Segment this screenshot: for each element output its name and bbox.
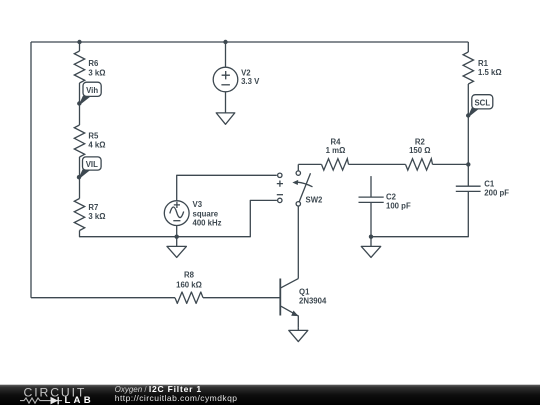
- V3 sine wave: [170, 207, 184, 218]
- resistor R5: [74, 125, 84, 157]
- logo diode: [45, 400, 62, 402]
- svg-text:SW2: SW2: [306, 196, 324, 205]
- svg-text:4 kΩ: 4 kΩ: [88, 141, 105, 150]
- svg-text:R1: R1: [478, 59, 489, 68]
- svg-text:400 kHz: 400 kHz: [193, 219, 222, 228]
- wire R6 to R5: [79, 83, 81, 125]
- flag VIL: [79, 157, 102, 179]
- V2 plus mark: [222, 71, 230, 79]
- flag Vih: [79, 82, 101, 105]
- ground for Q1: [289, 327, 308, 341]
- resistor R2: [406, 159, 433, 170]
- resistor R8: [175, 292, 203, 303]
- port terminal minus: [278, 198, 282, 202]
- resistor R4: [322, 159, 349, 170]
- wire R5 to R7: [79, 157, 81, 199]
- capacitor C1: [456, 186, 481, 191]
- ground for C2: [361, 237, 380, 258]
- transistor Q1 emitter arrow: [291, 311, 298, 317]
- node V3 bottom junction: [175, 235, 179, 239]
- port minus mark: [277, 194, 283, 196]
- wire R4 to R2: [349, 163, 406, 165]
- switch SW2 bottom terminal: [296, 202, 300, 206]
- footer bar: [0, 385, 540, 405]
- wire R7 to bottom: [80, 200, 277, 236]
- ground for V3: [167, 237, 186, 258]
- node Vih: [77, 101, 81, 105]
- flag SCL: [468, 95, 493, 117]
- svg-text:R6: R6: [88, 59, 99, 68]
- svg-text:1.5 kΩ: 1.5 kΩ: [478, 68, 502, 77]
- node C2 ground junction: [369, 235, 373, 239]
- V3 minus mark: [173, 220, 180, 222]
- switch SW2 blade: [299, 173, 310, 202]
- resistor R6: [74, 51, 84, 83]
- svg-text:200 pF: 200 pF: [484, 189, 509, 198]
- svg-text:C1: C1: [484, 180, 495, 189]
- wire R8 to Q1 base: [203, 297, 280, 299]
- svg-text:LAB: LAB: [65, 395, 94, 405]
- wire C2 bottom: [370, 202, 372, 236]
- svg-text:SCL: SCL: [474, 99, 490, 108]
- resistor R1: [463, 52, 473, 84]
- port plus mark: [277, 181, 283, 187]
- wire switch to Q1 collector: [297, 206, 299, 279]
- wire V2 bottom lead: [225, 92, 227, 113]
- svg-text:160 kΩ: 160 kΩ: [176, 280, 202, 289]
- node top rail V2: [223, 40, 227, 44]
- wire top rail: [31, 41, 468, 43]
- wire chain top lead: [79, 42, 81, 51]
- svg-text:http://circuitlab.com/cymdkqp: http://circuitlab.com/cymdkqp: [115, 393, 238, 403]
- logo resistor squiggle: [20, 398, 45, 403]
- transistor Q1 collector diagonal: [281, 279, 298, 288]
- V2 minus mark: [221, 84, 230, 86]
- wire switch top to R4: [298, 163, 321, 165]
- wire R1 to junction: [467, 84, 469, 164]
- svg-text:C2: C2: [386, 193, 397, 202]
- svg-text:1 mΩ: 1 mΩ: [326, 146, 346, 155]
- wire C2 top stub: [370, 176, 372, 197]
- svg-text:3.3 V: 3.3 V: [241, 77, 260, 86]
- node VIL: [77, 175, 81, 179]
- ground for V2: [216, 113, 235, 124]
- node R2-C1 junction: [466, 162, 470, 166]
- svg-text:VIL: VIL: [86, 160, 98, 169]
- node top rail chain: [77, 40, 81, 44]
- port terminal plus: [278, 173, 282, 177]
- capacitor C2: [359, 197, 384, 202]
- svg-text:3 kΩ: 3 kΩ: [88, 212, 105, 221]
- switch SW2 arc arrow: [298, 182, 313, 187]
- svg-text:square: square: [193, 209, 219, 218]
- svg-text:R8: R8: [184, 271, 195, 280]
- wire switch top: [297, 164, 299, 170]
- wire bottom-left to R8: [31, 297, 175, 299]
- svg-text:150 Ω: 150 Ω: [409, 146, 430, 155]
- voltage source V2 circle: [213, 67, 238, 92]
- switch SW2 top terminal: [296, 171, 300, 175]
- svg-text:100 pF: 100 pF: [386, 202, 411, 211]
- svg-text:3 kΩ: 3 kΩ: [88, 68, 105, 77]
- svg-text:Vih: Vih: [86, 86, 98, 95]
- node SCL: [466, 113, 470, 117]
- voltage source V3 circle: [164, 201, 189, 226]
- wire R2 to right rail: [433, 163, 469, 165]
- wire C1 bottom: [371, 191, 468, 236]
- svg-text:V3: V3: [193, 200, 203, 209]
- wire right rail R1 top lead: [467, 42, 469, 52]
- V3 plus mark: [174, 202, 180, 208]
- svg-text:Q1: Q1: [299, 287, 310, 296]
- wire junction to C1: [467, 164, 469, 186]
- transistor Q1 emitter: [281, 306, 298, 327]
- wire V3 plus lead: [177, 175, 277, 200]
- wire V3 bottom: [176, 226, 178, 237]
- svg-text:R7: R7: [88, 203, 98, 212]
- svg-text:2N3904: 2N3904: [299, 297, 327, 306]
- wire left vertical: [30, 42, 32, 298]
- transistor Q1 base bar: [279, 279, 281, 316]
- wire V2 top lead: [225, 42, 227, 67]
- svg-text:R5: R5: [88, 132, 99, 141]
- resistor R7: [74, 199, 84, 231]
